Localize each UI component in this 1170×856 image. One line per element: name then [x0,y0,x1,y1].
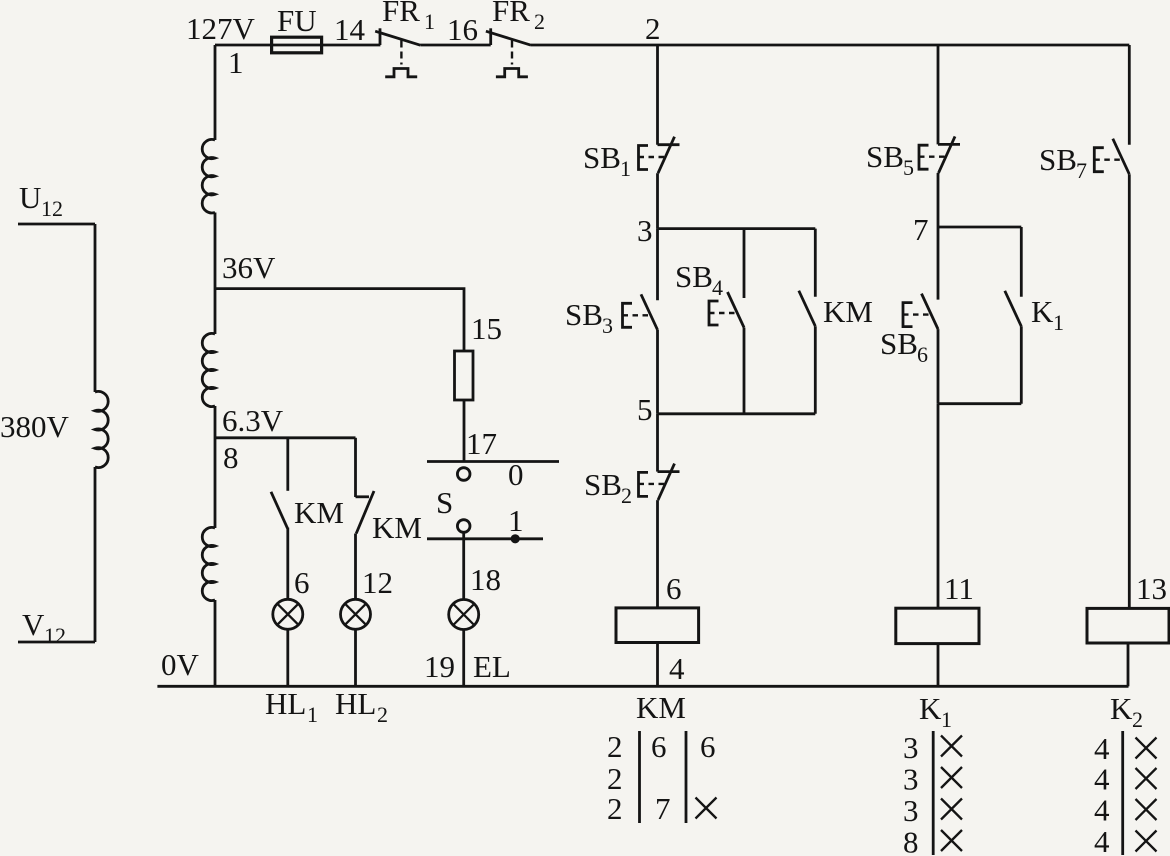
contact K1 auxiliary (NO, seal-in) [1005,291,1022,327]
wire 36V tap [215,289,464,351]
label SB6 [880,326,928,367]
label 380V [0,409,70,444]
fuse FU [272,37,322,53]
label SB4 [675,259,723,300]
node 1 label [228,45,244,80]
label SB7 [1039,142,1087,183]
thermal relay contact FR1 [375,28,420,77]
resistor (ballast) in EL branch [455,351,474,400]
label KM (aux contact) [823,294,873,329]
K2 table column divider [1121,731,1124,855]
wire coil K2 to 0V bus [1127,643,1130,686]
K2 table rows 4,4,4,4 [1094,731,1110,856]
wire switch S to lamp EL [462,532,465,599]
resistor 15 value label [471,311,502,346]
svg-text:V: V [22,607,45,642]
transformer T primary terminal U12 lead [18,223,95,226]
wire lamp HL1 to 0V bus [286,629,289,686]
thermal relay contact FR2 [486,28,531,77]
svg-text:KM: KM [372,510,422,545]
label 1 (switch position) [508,503,524,538]
transformer T primary winding 380V [95,224,108,642]
node 6 label (coil KM) [666,571,682,606]
svg-text:SB: SB [584,467,622,502]
K2 table crosses [1136,738,1157,852]
switch S position-1 engaged dot [511,534,520,543]
lamp HL1 [273,599,303,629]
svg-text:S: S [436,485,453,520]
svg-text:7: 7 [913,212,929,247]
node 19 label [424,649,455,684]
svg-text:2: 2 [607,729,623,764]
svg-text:3: 3 [903,730,919,765]
svg-text:17: 17 [466,426,497,461]
label S [436,485,453,520]
pushbutton SB6 (NO) [903,294,938,330]
wire top bus down to SB5 [937,45,940,144]
svg-text:6: 6 [651,729,667,764]
wire K1 aux to loop bottom [1020,326,1023,403]
svg-text:3: 3 [602,313,613,338]
svg-text:18: 18 [470,562,501,597]
svg-text:3: 3 [903,762,919,797]
wire node2 down to SB1 [656,45,659,145]
svg-text:1: 1 [1053,310,1064,335]
svg-text:13: 13 [1136,571,1167,606]
svg-text:380V: 380V [0,409,70,444]
switch S position-0 bar [427,460,559,463]
switch S pole contact position 0 [457,468,470,481]
svg-text:4: 4 [669,651,685,686]
svg-text:SB: SB [583,140,621,175]
svg-text:0: 0 [508,457,524,492]
transformer T secondary winding section 36V-6.3V [202,333,215,528]
svg-text:FU: FU [277,3,317,38]
contact KM auxiliary (NO, seal-in) [799,291,816,327]
svg-text:K: K [919,691,942,726]
svg-text:2: 2 [377,702,388,727]
label EL [473,649,511,684]
label K1 (below bus) [919,691,952,732]
node 16 label [447,12,478,47]
K1 table rows 3,3,3,8 [903,730,919,856]
label FR2 [492,0,545,34]
wire node7 down to K1 aux contact [1020,227,1023,297]
svg-text:7: 7 [1076,158,1087,183]
KM table column divider 1 [638,731,641,823]
label U12 [19,180,63,221]
svg-text:3: 3 [903,793,919,828]
wire node3 down to SB4 [743,229,746,298]
svg-text:HL: HL [265,686,306,721]
svg-text:U: U [19,180,41,215]
coil K1 [896,608,979,643]
svg-text:SB: SB [565,297,603,332]
svg-text:4: 4 [1094,793,1110,828]
pushbutton SB5 (NC) [919,136,960,173]
svg-text:2: 2 [645,11,661,46]
svg-text:12: 12 [362,565,393,600]
pushbutton SB4 (NO) [709,292,744,328]
wire SB2 to coil KM [656,500,659,608]
label HL1 [265,686,318,727]
label SB3 [565,297,613,338]
svg-text:SB: SB [880,326,918,361]
svg-text:K: K [1031,294,1054,329]
wire between FR1 and FR2 [420,44,490,47]
node 3 label [637,213,653,248]
label SB2 [584,467,632,508]
wire SB3 to node 5 [656,330,659,414]
wire SB1 to node 3 [656,173,659,228]
label K1 (aux contact) [1031,294,1064,335]
svg-text:2: 2 [534,9,545,34]
K1 table crosses [941,736,962,852]
node 14 label [334,12,366,47]
coil KM [616,608,699,643]
svg-text:12: 12 [44,623,66,648]
svg-text:7: 7 [655,791,671,826]
label HL2 [335,686,388,727]
lamp HL2 [341,599,371,629]
svg-text:HL: HL [335,686,376,721]
label 36V [222,250,276,285]
svg-text:1: 1 [307,702,318,727]
contact KM (NO) in HL1 branch [271,492,288,529]
node 7 label [913,212,929,247]
svg-text:1: 1 [228,45,244,80]
node 6 label (HL1 branch) [294,565,310,600]
wire SB7 down to coil K2 [1128,174,1131,608]
svg-text:FR: FR [382,0,420,28]
wire K1 loop bottom horizontal [938,402,1021,405]
wire node 3 horizontal [658,227,816,230]
svg-text:8: 8 [223,440,239,475]
svg-text:19: 19 [424,649,455,684]
wire 0V bus [157,685,1128,688]
label 6.3V [222,403,284,438]
node 12 label (HL2 branch) [362,565,393,600]
svg-text:36V: 36V [222,250,276,285]
svg-text:1: 1 [620,156,631,181]
wire KM aux to node 5 [814,326,817,414]
wire 127V top left segment [215,44,380,47]
node 13 label [1136,571,1167,606]
svg-text:2: 2 [621,483,632,508]
node 5 label [637,392,653,427]
node 8 label [223,440,239,475]
svg-text:SB: SB [866,139,904,174]
svg-text:5: 5 [903,155,914,180]
transformer T secondary winding section 6.3V-0V [202,527,215,686]
transformer T primary terminal V12 lead [18,641,95,644]
label 0V [161,647,200,682]
label FR1 [382,0,435,34]
switch S pole contact position 1 [457,520,470,533]
wire KM contact to lamp HL2 [354,534,357,600]
switch S position-1 bar [427,537,543,540]
svg-text:SB: SB [675,259,713,294]
svg-text:KM: KM [294,495,344,530]
svg-text:4: 4 [712,275,723,300]
wire lamp EL to 0V bus [462,630,465,687]
wire resistor to switch S [463,400,466,462]
svg-text:4: 4 [1094,824,1110,856]
svg-text:1: 1 [508,503,524,538]
wire down to coil K1 [937,404,940,609]
svg-text:KM: KM [636,690,686,725]
svg-text:FR: FR [492,0,530,28]
KM table column divider 2 [685,731,688,823]
wire SB5 to node 7 [937,173,940,227]
svg-text:6.3V: 6.3V [222,403,284,438]
wire lamp HL2 to 0V bus [354,629,357,686]
svg-text:1: 1 [941,707,952,732]
pushbutton SB1 (NC) [639,137,680,174]
transformer T secondary winding section 127V-36V [202,45,215,334]
KM table row2 cell 2 [607,761,623,796]
svg-text:0V: 0V [161,647,200,682]
wire top bus down to SB7 [1128,45,1131,145]
svg-text:12: 12 [41,196,63,221]
svg-text:6: 6 [917,342,928,367]
svg-text:5: 5 [637,392,653,427]
node 11 label [944,571,974,606]
lamp EL [449,600,479,630]
svg-text:11: 11 [944,571,974,606]
svg-text:1: 1 [424,9,435,34]
coil K2 [1087,608,1169,643]
svg-text:15: 15 [471,311,502,346]
svg-text:14: 14 [334,12,366,47]
svg-text:3: 3 [637,213,653,248]
svg-text:6: 6 [700,729,716,764]
label KM (below bus) [636,690,686,725]
label FU [277,3,317,38]
wire node3 down to SB3 [656,229,659,301]
label K2 (below bus) [1110,691,1143,732]
svg-text:16: 16 [447,12,478,47]
wire node3 down to KM aux contact [814,229,817,297]
K1 table column divider [932,731,935,855]
svg-text:SB: SB [1039,142,1077,177]
label SB1 [583,140,631,181]
svg-text:K: K [1110,691,1133,726]
label 127V [186,11,256,46]
node 2 label [645,11,661,46]
label KM (HL1 branch) [294,495,344,530]
pushbutton SB2 (NC) [639,464,680,501]
wire coil KM to 0V bus [656,643,659,687]
pushbutton SB3 (NO) [623,294,658,330]
wire 6.3V to KM contact (HL2 branch) [354,438,357,497]
wire node 7 horizontal [938,226,1021,229]
svg-text:2: 2 [607,791,623,826]
node 18 label [470,562,501,597]
wire SB4 to node 5 [743,328,746,414]
svg-text:4: 4 [1094,762,1110,797]
wire 6.3V tap [215,436,356,439]
wire top bus right of FR2 [531,44,1129,47]
wire coil K1 to 0V bus [937,644,940,687]
svg-text:EL: EL [473,649,511,684]
label 0 (switch position) [508,457,524,492]
wire node5 down to SB2 [656,414,659,472]
wire KM contact to lamp HL1 [286,528,289,600]
KM table row1 cells 2|6|6 [607,729,716,764]
wire node 5 horizontal [658,412,816,415]
svg-text:8: 8 [903,825,919,856]
wire SB6 down to K1 loop bottom [937,329,940,404]
label SB5 [866,139,914,180]
svg-text:6: 6 [294,565,310,600]
node 4 label [669,651,685,686]
contact KM (NC) in HL2 branch [356,491,375,534]
KM table row3 cells 2|7|x [607,791,717,826]
wire node7 down to SB6 [937,227,940,300]
pushbutton SB7 (NO) [1094,139,1129,175]
svg-text:KM: KM [823,294,873,329]
label V12 [22,607,66,648]
label KM (HL2 branch) [372,510,422,545]
node 17 label [466,426,497,461]
svg-text:6: 6 [666,571,682,606]
svg-text:127V: 127V [186,11,256,46]
wire 6.3V to KM contact (HL1 branch) [286,438,289,491]
svg-text:2: 2 [1132,707,1143,732]
